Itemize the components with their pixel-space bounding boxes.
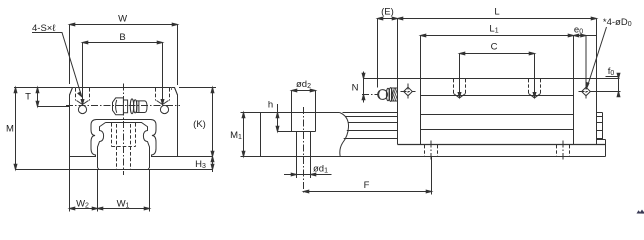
leader *4-phiD0 bbox=[588, 27, 607, 86]
svg-text:4-S×ℓ: 4-S×ℓ bbox=[32, 23, 56, 34]
C tapped holes (dashed, from top) bbox=[454, 79, 541, 94]
label 4-S×l with leader bbox=[32, 33, 81, 96]
svg-text:*4-øD0: *4-øD0 bbox=[603, 17, 632, 28]
dimension f0 bbox=[592, 73, 621, 97]
block top-left chamfer bbox=[70, 88, 73, 96]
corner logo blob bbox=[637, 210, 644, 214]
svg-text:W: W bbox=[118, 14, 127, 25]
svg-text:ød2: ød2 bbox=[296, 79, 311, 90]
svg-text:T: T bbox=[25, 92, 31, 103]
through hole phi-d1 bbox=[297, 132, 311, 157]
diamond hole marks on end plates bbox=[404, 87, 413, 96]
dimension phi-d1 bbox=[284, 174, 332, 176]
svg-text:M: M bbox=[6, 124, 14, 135]
block top-right chamfer bbox=[175, 88, 178, 96]
dimension (E) and L bbox=[378, 19, 597, 88]
dimension phi-d2 bbox=[292, 90, 316, 92]
ball-return bores (circles) bbox=[78, 105, 86, 113]
rail bottom bbox=[261, 156, 606, 158]
svg-text:M1: M1 bbox=[230, 130, 242, 141]
hole center line bbox=[303, 107, 305, 195]
dimension M bbox=[14, 88, 72, 170]
left tapped hole S (dashed) bbox=[76, 88, 90, 101]
svg-text:h: h bbox=[268, 100, 273, 111]
dimension h bbox=[278, 104, 292, 132]
block body bbox=[398, 79, 597, 145]
dimension W bbox=[70, 25, 178, 86]
block bottom extension line to (K)/H3 bbox=[178, 156, 213, 158]
top edge notch ticks bbox=[76, 88, 172, 91]
svg-text:C: C bbox=[491, 42, 498, 53]
dimension (K) bbox=[179, 88, 216, 173]
svg-text:L: L bbox=[494, 7, 499, 18]
svg-text:H3: H3 bbox=[195, 159, 206, 170]
svg-text:e0: e0 bbox=[574, 25, 583, 36]
dimension M1 bbox=[241, 113, 261, 157]
svg-text:L1: L1 bbox=[489, 24, 498, 35]
rail break curve bbox=[340, 113, 349, 157]
dimension H3 arrows bbox=[211, 157, 214, 170]
dimension F bbox=[304, 157, 432, 195]
svg-text:f0: f0 bbox=[608, 66, 615, 77]
rail cross-section bbox=[98, 123, 150, 170]
grease nipple (front view, center) bbox=[113, 98, 124, 115]
rail bottom / base line bbox=[15, 169, 213, 171]
right rail end bbox=[597, 113, 606, 157]
rail section rectangle bbox=[261, 113, 340, 157]
center vertical axis (dash-dot) bbox=[123, 84, 125, 176]
svg-text:(E): (E) bbox=[381, 7, 394, 18]
svg-text:W1: W1 bbox=[117, 199, 130, 210]
dimension T bbox=[38, 88, 70, 107]
svg-text:(K): (K) bbox=[193, 119, 206, 130]
svg-text:ød1: ød1 bbox=[313, 164, 328, 175]
dimensions W2 / W1 bbox=[70, 157, 150, 212]
block outline bbox=[70, 88, 178, 157]
rail mounting hole hidden lines (dashed) bbox=[112, 123, 136, 169]
dimension N bbox=[364, 72, 398, 103]
end plate bottoms / rail flange line bbox=[398, 144, 606, 146]
rail side profile lines bbox=[343, 112, 398, 114]
dimension L1 and e0 bbox=[421, 36, 597, 87]
svg-text:B: B bbox=[119, 32, 125, 43]
grease nipple (side view) bbox=[378, 90, 388, 100]
svg-text:W2: W2 bbox=[76, 199, 89, 210]
counterbore phi-d2 bbox=[292, 91, 316, 132]
svg-text:F: F bbox=[364, 180, 370, 191]
dimension C bbox=[460, 54, 535, 97]
svg-text:N: N bbox=[352, 83, 359, 94]
horizontal center line (dash-dot) bbox=[66, 105, 180, 107]
right tapped hole S (dashed) bbox=[156, 88, 170, 101]
rail mounting holes under block (dashed) bbox=[425, 145, 570, 156]
dimension B bbox=[83, 43, 163, 104]
